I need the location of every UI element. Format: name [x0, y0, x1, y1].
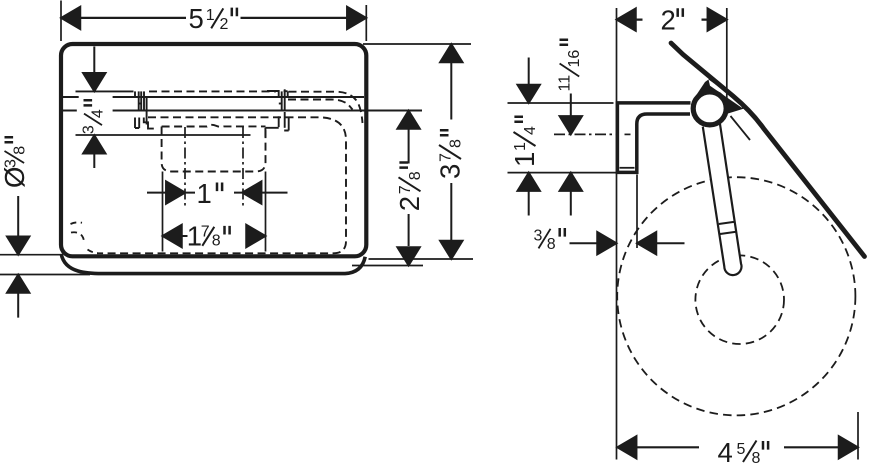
svg-text:4: 4	[90, 109, 107, 118]
bar joint ticks	[719, 222, 736, 234]
svg-text:3: 3	[435, 164, 466, 179]
top reference line 3/4	[76, 90, 134, 92]
seam line upper	[63, 96, 364, 98]
pivot web between circle and cover	[696, 77, 748, 114]
seam line lower / ext for 2 7/8	[61, 110, 422, 112]
svg-text:1: 1	[197, 178, 212, 209]
roll arm outline	[703, 123, 742, 275]
label 11/16 rotated	[557, 40, 583, 92]
dim dia 3/8 far left	[0, 255, 90, 275]
dim 4 5/8 bottom	[637, 446, 839, 448]
label 3 7/8 rotated	[435, 130, 466, 179]
bar centerline	[554, 133, 618, 135]
label 1 inch	[197, 178, 223, 209]
label 4 5/8 bottom	[718, 437, 769, 468]
label dia 3/8 rotated	[0, 137, 30, 188]
svg-text:11: 11	[557, 75, 574, 92]
dim 1 7/8	[182, 235, 188, 237]
label 2 inch right view	[661, 4, 683, 35]
svg-text:8: 8	[547, 236, 556, 253]
svg-text:8: 8	[11, 146, 28, 155]
screw hole centerlines	[185, 127, 243, 208]
dim 3/8 side	[570, 242, 685, 244]
svg-text:3: 3	[3, 159, 20, 168]
hole line 3/4 bottom	[76, 134, 251, 136]
label 3/4 rotated	[81, 100, 107, 134]
svg-text:4: 4	[522, 126, 539, 135]
svg-text:1: 1	[512, 142, 529, 151]
dim 1 inch	[147, 192, 288, 194]
dim 3/4 left	[93, 47, 95, 169]
svg-text:8: 8	[752, 450, 761, 467]
label 3/8 side view	[534, 227, 565, 253]
svg-text:1: 1	[509, 152, 540, 167]
label 5 1/2	[189, 3, 237, 34]
pivot circle	[693, 92, 726, 125]
svg-text:2: 2	[661, 4, 676, 35]
label 1 1/4 rotated	[509, 117, 540, 167]
svg-text:1: 1	[206, 7, 215, 24]
extension lines 1 7/8	[163, 172, 266, 252]
svg-text:16: 16	[566, 50, 583, 68]
wall reference vertical	[616, 8, 618, 460]
dim 3 7/8 far right	[363, 44, 473, 259]
svg-text:8: 8	[212, 233, 221, 250]
dim 11/16 and 1 1/4	[508, 103, 627, 173]
left mounting clip	[135, 91, 154, 128]
wall bracket L profile	[617, 103, 690, 172]
svg-text:5: 5	[737, 441, 746, 458]
dim 2 7/8 right of body	[408, 129, 410, 246]
dim 5 1/2 top	[61, 1, 366, 42]
dim 2 top right	[637, 19, 708, 21]
svg-text:3: 3	[81, 125, 98, 134]
label 1 7/8	[187, 221, 230, 252]
bottom lip (roll bar)	[61, 254, 365, 274]
hidden plate outline dashed	[97, 91, 363, 253]
svg-text:8: 8	[448, 139, 465, 148]
paper roll dashed circles	[617, 177, 855, 415]
svg-text:3: 3	[534, 227, 543, 244]
cover profile	[671, 43, 865, 257]
right mounting clip	[265, 89, 288, 137]
svg-text:4: 4	[718, 437, 733, 468]
roll arm white fill	[703, 123, 742, 275]
svg-text:5: 5	[189, 3, 204, 34]
svg-text:2: 2	[220, 16, 229, 33]
svg-text:8: 8	[407, 171, 424, 180]
svg-text:Ø: Ø	[0, 167, 30, 188]
svg-text:1: 1	[187, 221, 202, 252]
svg-text:2: 2	[394, 196, 425, 211]
label 2 7/8 rotated	[394, 163, 425, 212]
bar end hidden fragments bottom-left	[71, 222, 99, 253]
body: cover front outline	[61, 44, 366, 256]
